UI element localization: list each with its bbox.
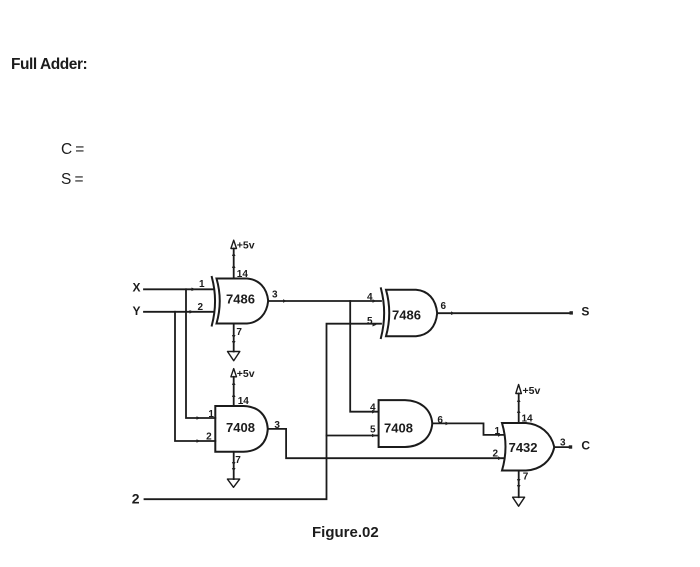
svg-text:14: 14 bbox=[522, 414, 534, 425]
svg-text:7486: 7486 bbox=[392, 308, 421, 323]
svg-text:7408: 7408 bbox=[226, 420, 255, 435]
svg-text:+5v: +5v bbox=[523, 385, 541, 397]
svg-text:3: 3 bbox=[560, 438, 566, 449]
svg-text:4: 4 bbox=[367, 292, 373, 303]
svg-text:5: 5 bbox=[370, 425, 376, 436]
svg-text:2: 2 bbox=[198, 302, 204, 313]
svg-text:5: 5 bbox=[367, 316, 373, 327]
svg-text:7432: 7432 bbox=[509, 440, 538, 455]
svg-text:14: 14 bbox=[238, 396, 250, 407]
svg-text:2: 2 bbox=[493, 448, 499, 459]
svg-text:7408: 7408 bbox=[384, 420, 413, 435]
svg-text:Y: Y bbox=[133, 304, 141, 318]
svg-text:1: 1 bbox=[495, 426, 501, 437]
svg-text:C: C bbox=[581, 438, 590, 452]
svg-text:7: 7 bbox=[523, 472, 529, 483]
svg-text:6: 6 bbox=[441, 301, 447, 312]
svg-text:S: S bbox=[581, 305, 589, 319]
svg-text:3: 3 bbox=[274, 420, 280, 431]
svg-text:4: 4 bbox=[370, 402, 376, 413]
svg-text:6: 6 bbox=[437, 415, 443, 426]
svg-text:2: 2 bbox=[132, 491, 140, 507]
svg-text:7: 7 bbox=[236, 327, 242, 338]
svg-text:+5v: +5v bbox=[237, 368, 255, 380]
svg-text:X: X bbox=[133, 281, 141, 295]
svg-text:3: 3 bbox=[272, 290, 278, 301]
svg-text:+5v: +5v bbox=[237, 240, 255, 252]
svg-text:7: 7 bbox=[235, 455, 241, 466]
svg-text:7486: 7486 bbox=[226, 291, 255, 306]
svg-text:1: 1 bbox=[199, 279, 205, 290]
svg-text:2: 2 bbox=[206, 432, 212, 443]
svg-text:1: 1 bbox=[208, 409, 214, 420]
svg-text:14: 14 bbox=[237, 269, 249, 280]
